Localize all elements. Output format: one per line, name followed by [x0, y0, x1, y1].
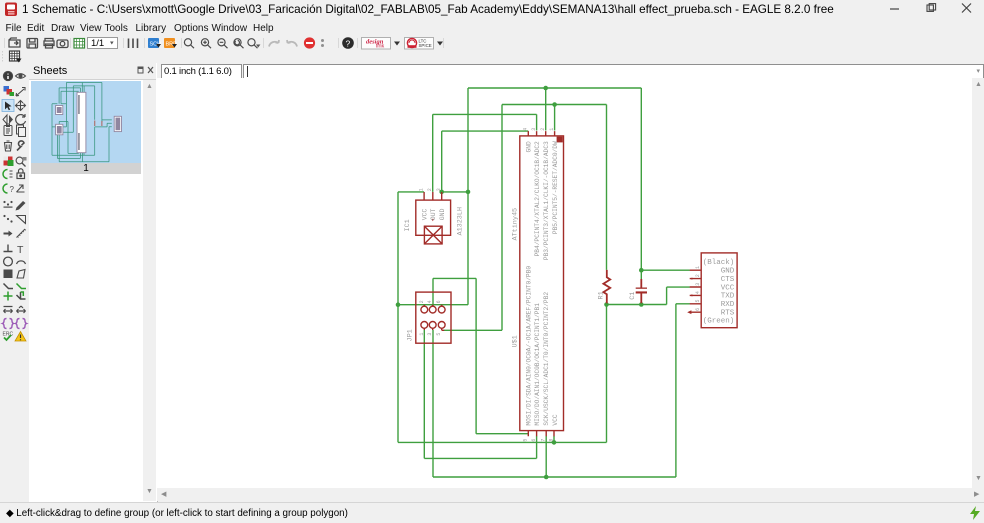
svg-text:3: 3: [695, 283, 701, 286]
svg-text:8: 8: [549, 439, 555, 442]
svg-text:1: 1: [695, 266, 701, 269]
svg-text:PB5/PCINT5/-RESET/ADC0/DW: PB5/PCINT5/-RESET/ADC0/DW: [552, 141, 559, 234]
svg-text:RXD: RXD: [721, 301, 735, 309]
svg-text:IC1: IC1: [404, 219, 412, 231]
svg-text:T: T: [17, 244, 24, 256]
svg-text:3: 3: [436, 188, 442, 191]
svg-text:PB4/PCINT4/XTAL2/CLKO/OC1B/ADC: PB4/PCINT4/XTAL2/CLKO/OC1B/ADC2: [534, 141, 541, 256]
svg-text:2: 2: [419, 300, 425, 303]
svg-text:(Green): (Green): [703, 318, 735, 326]
svg-text:U$1: U$1: [512, 335, 520, 347]
svg-text:JP1: JP1: [406, 329, 414, 341]
svg-text:3: 3: [531, 128, 537, 131]
svg-text:2: 2: [695, 274, 701, 277]
svg-text:6: 6: [695, 308, 701, 311]
svg-text:MISO/DO/AIN1/OC0B/OC1A/PCINT1/: MISO/DO/AIN1/OC0B/OC1A/PCINT1/PB1: [534, 303, 541, 426]
svg-text:1: 1: [549, 128, 555, 131]
svg-text:link: link: [376, 44, 385, 50]
svg-text:GND: GND: [439, 208, 446, 220]
svg-text:ERC: ERC: [3, 332, 14, 338]
svg-text:5: 5: [523, 439, 529, 442]
svg-text:CTS: CTS: [721, 276, 735, 284]
svg-text:C1: C1: [629, 292, 637, 300]
svg-text:RTS: RTS: [721, 310, 735, 318]
svg-text:7: 7: [541, 439, 547, 442]
svg-text:?: ?: [10, 185, 15, 194]
svg-text:1/1: 1/1: [91, 38, 104, 49]
svg-text:GND: GND: [526, 141, 533, 152]
svg-text:TXD: TXD: [721, 293, 735, 301]
svg-text:SPICE: SPICE: [419, 43, 432, 48]
svg-text:(Black): (Black): [703, 259, 735, 267]
svg-text:SCK/USCK/SCL/ADC1/T0/INT0/PCIN: SCK/USCK/SCL/ADC1/T0/INT0/PCINT2/PB2: [543, 292, 550, 426]
svg-text:2: 2: [427, 188, 433, 191]
svg-text:ATtiny45: ATtiny45: [512, 208, 520, 241]
svg-text:VCC: VCC: [422, 208, 429, 220]
svg-text:PB3/PCINT3/XTAL1/CLKI/-OC1B/AD: PB3/PCINT3/XTAL1/CLKI/-OC1B/ADC3: [543, 141, 550, 260]
svg-text:4: 4: [427, 300, 433, 303]
svg-text:R1: R1: [598, 291, 606, 299]
svg-text:6: 6: [531, 439, 537, 442]
svg-text:VCC: VCC: [721, 284, 735, 292]
svg-text:5: 5: [695, 299, 701, 302]
svg-text:5: 5: [436, 333, 442, 336]
svg-text:MOSI/DI/SDA/AIN0/OC0A/-OC1A/AR: MOSI/DI/SDA/AIN0/OC0A/-OC1A/AREF/PCINT0/…: [526, 266, 533, 426]
svg-text:4: 4: [522, 128, 528, 131]
svg-text:6: 6: [436, 300, 442, 303]
svg-text:VCC: VCC: [552, 414, 559, 425]
svg-text:OUT: OUT: [430, 208, 437, 220]
svg-text:1: 1: [419, 333, 425, 336]
svg-text:4: 4: [695, 291, 701, 294]
svg-text:3: 3: [427, 333, 433, 336]
svg-text:A1323LH: A1323LH: [457, 207, 465, 236]
svg-text:?: ?: [346, 39, 351, 49]
svg-text:2: 2: [540, 128, 546, 131]
svg-text:GND: GND: [721, 268, 735, 276]
svg-text:1: 1: [419, 188, 425, 191]
